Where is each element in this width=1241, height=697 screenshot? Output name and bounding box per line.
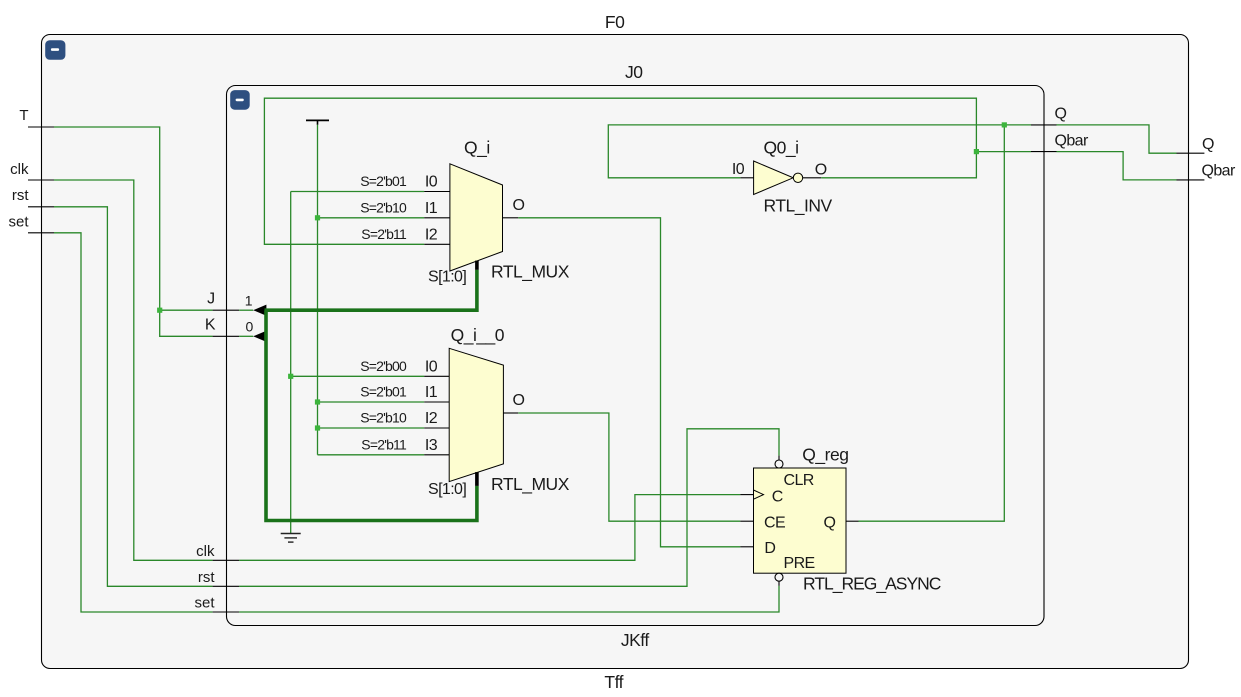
pin stub Q_i__0 I0: [424, 375, 449, 377]
inverter Q0_i: [754, 161, 803, 195]
pin stub reg Q: [846, 520, 859, 522]
pin stub Q_i__0 I3: [424, 454, 449, 456]
pin stub Q_i__0 I2: [424, 427, 449, 429]
svg-text:1: 1: [245, 292, 253, 308]
svg-text:RTL_MUX: RTL_MUX: [491, 474, 570, 495]
junction vcc mux1 I1: [315, 215, 320, 220]
svg-text:I1: I1: [425, 384, 438, 401]
svg-text:PRE: PRE: [784, 555, 815, 572]
svg-text:I1: I1: [425, 200, 438, 217]
junction Q net: [1002, 122, 1007, 127]
pin crossing Qbar inner: [1031, 151, 1057, 153]
svg-text:S=2'b01: S=2'b01: [360, 384, 407, 400]
value S=2'b11 (Q_i__0 I3): [361, 436, 407, 452]
wire mux2 O to CE: [518, 413, 740, 521]
label F0: [605, 12, 625, 32]
wire K pin tail: [239, 335, 253, 337]
label reg CLR: [784, 472, 814, 489]
collapse button J0: [230, 90, 250, 110]
label J0: [625, 62, 643, 82]
label Q_reg: [802, 445, 848, 466]
value S=2'b00 (Q_i__0 I0): [360, 358, 407, 374]
label rst internal: [198, 569, 215, 586]
svg-text:S=2'b01: S=2'b01: [360, 173, 407, 189]
svg-text:JKff: JKff: [621, 630, 649, 650]
label Q_i__0 I3: [425, 437, 438, 454]
label Q_i I0: [425, 174, 438, 191]
wire vcc to mux2 I3: [318, 454, 425, 456]
label Q_i I1: [425, 200, 438, 217]
svg-text:J: J: [207, 290, 214, 307]
bit label 0: [246, 319, 254, 335]
svg-text:Qbar: Qbar: [1202, 162, 1236, 179]
junction Qbar net: [974, 149, 979, 154]
svg-text:Q_i: Q_i: [464, 138, 490, 159]
label reg CE: [764, 515, 785, 532]
svg-text:O: O: [815, 162, 827, 179]
svg-text:0: 0: [246, 319, 254, 335]
collapse button F0: [45, 40, 65, 60]
svg-text:F0: F0: [605, 12, 625, 32]
wire net set: [54, 233, 779, 612]
label Q_i I2: [425, 226, 438, 243]
label Q_i__0 O: [513, 392, 525, 409]
pin stub Q_i__0 I1: [424, 401, 449, 403]
junction vcc mux2 I1: [315, 399, 320, 404]
svg-text:S[1:0]: S[1:0]: [428, 481, 466, 498]
label Q_i__0 I1: [425, 384, 438, 401]
label Q_i O: [513, 197, 525, 214]
pin crossing set internal: [213, 611, 240, 613]
svg-text:Q: Q: [1055, 106, 1067, 123]
bus ripper triangle K (bit 0): [253, 331, 266, 342]
pin stub Q_i I2: [424, 243, 450, 245]
svg-text:Tff: Tff: [604, 672, 623, 692]
pin stub Q_i I1: [424, 217, 450, 219]
label S[1:0] (Q_i): [428, 269, 466, 286]
inner module box JKff: [227, 86, 1045, 626]
svg-text:rst: rst: [198, 569, 215, 586]
port rst: [12, 187, 54, 207]
label Tff: [604, 672, 623, 692]
wire net T to J/K: [54, 127, 213, 336]
junction gnd mux2 I0: [288, 374, 293, 379]
svg-text:Q0_i: Q0_i: [764, 138, 799, 159]
svg-text:I0: I0: [425, 174, 438, 191]
wire net rst: [54, 207, 779, 587]
svg-text:RTL_MUX: RTL_MUX: [491, 262, 570, 283]
label reg Q: [824, 515, 836, 532]
wire J pin tail: [239, 309, 253, 311]
wire Q inner to outer port: [1057, 125, 1177, 153]
mux Q_i__0: [449, 348, 503, 481]
label set internal: [194, 595, 215, 612]
value S=2'b01 (Q_i__0 I1): [360, 384, 407, 400]
bit label 1: [245, 292, 253, 308]
svg-text:S=2'b10: S=2'b10: [360, 410, 407, 426]
wire mux1 O to D: [518, 218, 740, 547]
svg-text:S=2'b10: S=2'b10: [360, 199, 407, 215]
junction vcc mux2 I2: [315, 425, 320, 430]
wire vcc to mux1 I1: [318, 217, 425, 219]
wire net clk: [54, 180, 740, 560]
svg-text:CE: CE: [764, 515, 785, 532]
svg-text:D: D: [764, 540, 775, 557]
pin crossing K: [213, 335, 240, 337]
wire Qbar inner to outer port: [1057, 152, 1177, 180]
value S=2'b11 (Q_i I2): [361, 226, 407, 242]
svg-text:O: O: [513, 197, 525, 214]
label Q_i__0: [451, 325, 505, 346]
pin stub reg CE: [740, 520, 753, 522]
svg-text:J0: J0: [625, 62, 643, 82]
label inverter I0: [732, 161, 745, 178]
label RTL_MUX (Q_i__0): [491, 474, 570, 495]
value S=2'b01 (Q_i I0): [360, 173, 407, 189]
svg-text:Qbar: Qbar: [1055, 133, 1089, 150]
label reg D: [764, 540, 775, 557]
svg-text:S=2'b11: S=2'b11: [361, 436, 407, 452]
pin stub inverter I0: [740, 177, 753, 179]
pin crossing rst internal: [213, 585, 240, 587]
port set: [8, 214, 54, 233]
pin stub Q_i__0 O: [503, 412, 518, 414]
svg-text:Q: Q: [824, 515, 836, 532]
label reg PRE: [784, 555, 815, 572]
svg-text:RTL_INV: RTL_INV: [764, 196, 833, 217]
svg-text:K: K: [205, 317, 216, 334]
bus ripper triangle J (bit 1): [253, 305, 266, 316]
label J: [207, 290, 214, 307]
pin crossing clk internal: [213, 559, 240, 561]
label reg C: [772, 489, 783, 506]
svg-text:T: T: [19, 107, 28, 124]
svg-text:rst: rst: [12, 187, 29, 204]
wire gnd to mux1 I0: [291, 191, 425, 193]
pin stub inverter O: [803, 177, 821, 179]
svg-text:I0: I0: [732, 161, 745, 178]
svg-text:RTL_REG_ASYNC: RTL_REG_ASYNC: [803, 574, 941, 595]
label RTL_INV: [764, 196, 833, 217]
svg-text:set: set: [8, 214, 29, 231]
svg-text:C: C: [772, 489, 783, 506]
wire vcc to mux2 I1: [318, 401, 425, 403]
bus S[1:0]: [265, 270, 477, 521]
label JKff: [621, 630, 649, 650]
svg-text:CLR: CLR: [784, 472, 814, 489]
label Qbar inner: [1055, 133, 1089, 150]
svg-text:S=2'b00: S=2'b00: [360, 358, 407, 374]
junction T net at J: [157, 308, 162, 313]
svg-text:Q: Q: [1202, 136, 1214, 153]
label Q inner: [1055, 106, 1067, 123]
pin crossing J: [213, 309, 240, 311]
label RTL_MUX (Q_i): [491, 262, 570, 283]
label Q_i__0 I2: [425, 410, 438, 427]
label Q0_i: [764, 138, 799, 159]
svg-text:I3: I3: [425, 437, 438, 454]
port T: [19, 107, 54, 127]
label inverter O: [815, 162, 827, 179]
svg-text:Q_i__0: Q_i__0: [451, 325, 505, 346]
svg-text:clk: clk: [196, 543, 215, 560]
value S=2'b10 (Q_i I1): [360, 199, 407, 215]
svg-text:set: set: [194, 595, 215, 612]
pin crossing Q inner: [1031, 124, 1057, 126]
svg-text:S[1:0]: S[1:0]: [428, 269, 466, 286]
svg-text:I2: I2: [425, 410, 438, 427]
pin stub Q_i__0 S (bus): [475, 472, 479, 486]
port Qbar outer: [1177, 162, 1236, 180]
svg-text:clk: clk: [10, 161, 29, 178]
label Q_i__0 I0: [425, 358, 438, 375]
label Q_i: [464, 138, 490, 159]
mux Q_i: [450, 164, 503, 271]
wire gnd to mux2 I0: [291, 375, 425, 377]
label K: [205, 317, 216, 334]
pin stub reg C: [740, 494, 753, 496]
ground: [281, 192, 301, 543]
label S[1:0] (Q_i__0): [428, 481, 466, 498]
svg-text:I2: I2: [425, 226, 438, 243]
supply VCC: [306, 120, 329, 454]
port Q outer: [1177, 136, 1215, 153]
pin stub reg D: [740, 546, 753, 548]
port clk: [10, 161, 54, 180]
wire net Qbar (inverter out to port and mux1 I2): [264, 98, 1031, 244]
pin stub Q_i S (bus): [475, 261, 479, 270]
wire net Q (reg Q to ports and inverter input): [608, 125, 1031, 521]
svg-text:O: O: [513, 392, 525, 409]
pin stub Q_i I0: [424, 191, 450, 193]
label RTL_REG_ASYNC: [803, 574, 941, 595]
svg-text:Q_reg: Q_reg: [802, 445, 848, 466]
svg-text:S=2'b11: S=2'b11: [361, 226, 407, 242]
svg-text:I0: I0: [425, 358, 438, 375]
pin stub Q_i O: [503, 217, 519, 219]
value S=2'b10 (Q_i__0 I2): [360, 410, 407, 426]
wire vcc to mux2 I2: [318, 427, 425, 429]
register Q_reg: [754, 460, 847, 581]
label clk internal: [196, 543, 215, 560]
